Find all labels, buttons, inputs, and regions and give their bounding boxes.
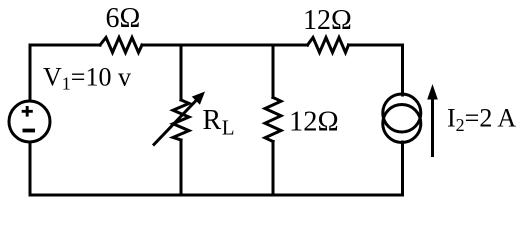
svg-text:6Ω: 6Ω bbox=[106, 3, 141, 34]
svg-text:12Ω: 12Ω bbox=[303, 5, 352, 36]
current source I2 circles bbox=[383, 94, 421, 132]
svg-text:RL: RL bbox=[203, 105, 235, 140]
wire top-middle bbox=[142, 44, 308, 47]
svg-text:V1=10 v: V1=10 v bbox=[43, 63, 131, 94]
wire below voltage source bbox=[29, 142, 32, 195]
plus sign of V1 bbox=[22, 106, 33, 117]
voltage source V1 circle bbox=[9, 101, 50, 142]
resistor 12ohm top bbox=[308, 38, 349, 53]
wire RL bottom bbox=[180, 140, 183, 195]
wire 12ohm-mid bottom bbox=[272, 142, 275, 196]
resistor 12ohm middle zigzag bbox=[265, 98, 281, 142]
arrow of current source I2 bbox=[427, 84, 438, 157]
minus sign of V1 bbox=[23, 129, 36, 133]
wire bottom bbox=[30, 194, 403, 197]
resistor 6ohm bbox=[100, 38, 142, 53]
wire below current source bbox=[401, 142, 404, 195]
wire top-left (left vertical + top horizontal to R 6ohm) bbox=[30, 45, 100, 101]
wire node RL top bbox=[180, 45, 183, 100]
wire node 12ohm-mid top bbox=[272, 45, 275, 98]
wire top-right (horizontal + down to current source) bbox=[349, 45, 403, 95]
svg-text:I2=2 A: I2=2 A bbox=[447, 104, 516, 136]
resistor RL zigzag bbox=[173, 100, 189, 140]
svg-text:12Ω: 12Ω bbox=[289, 107, 339, 138]
arrow through RL bbox=[153, 92, 205, 146]
